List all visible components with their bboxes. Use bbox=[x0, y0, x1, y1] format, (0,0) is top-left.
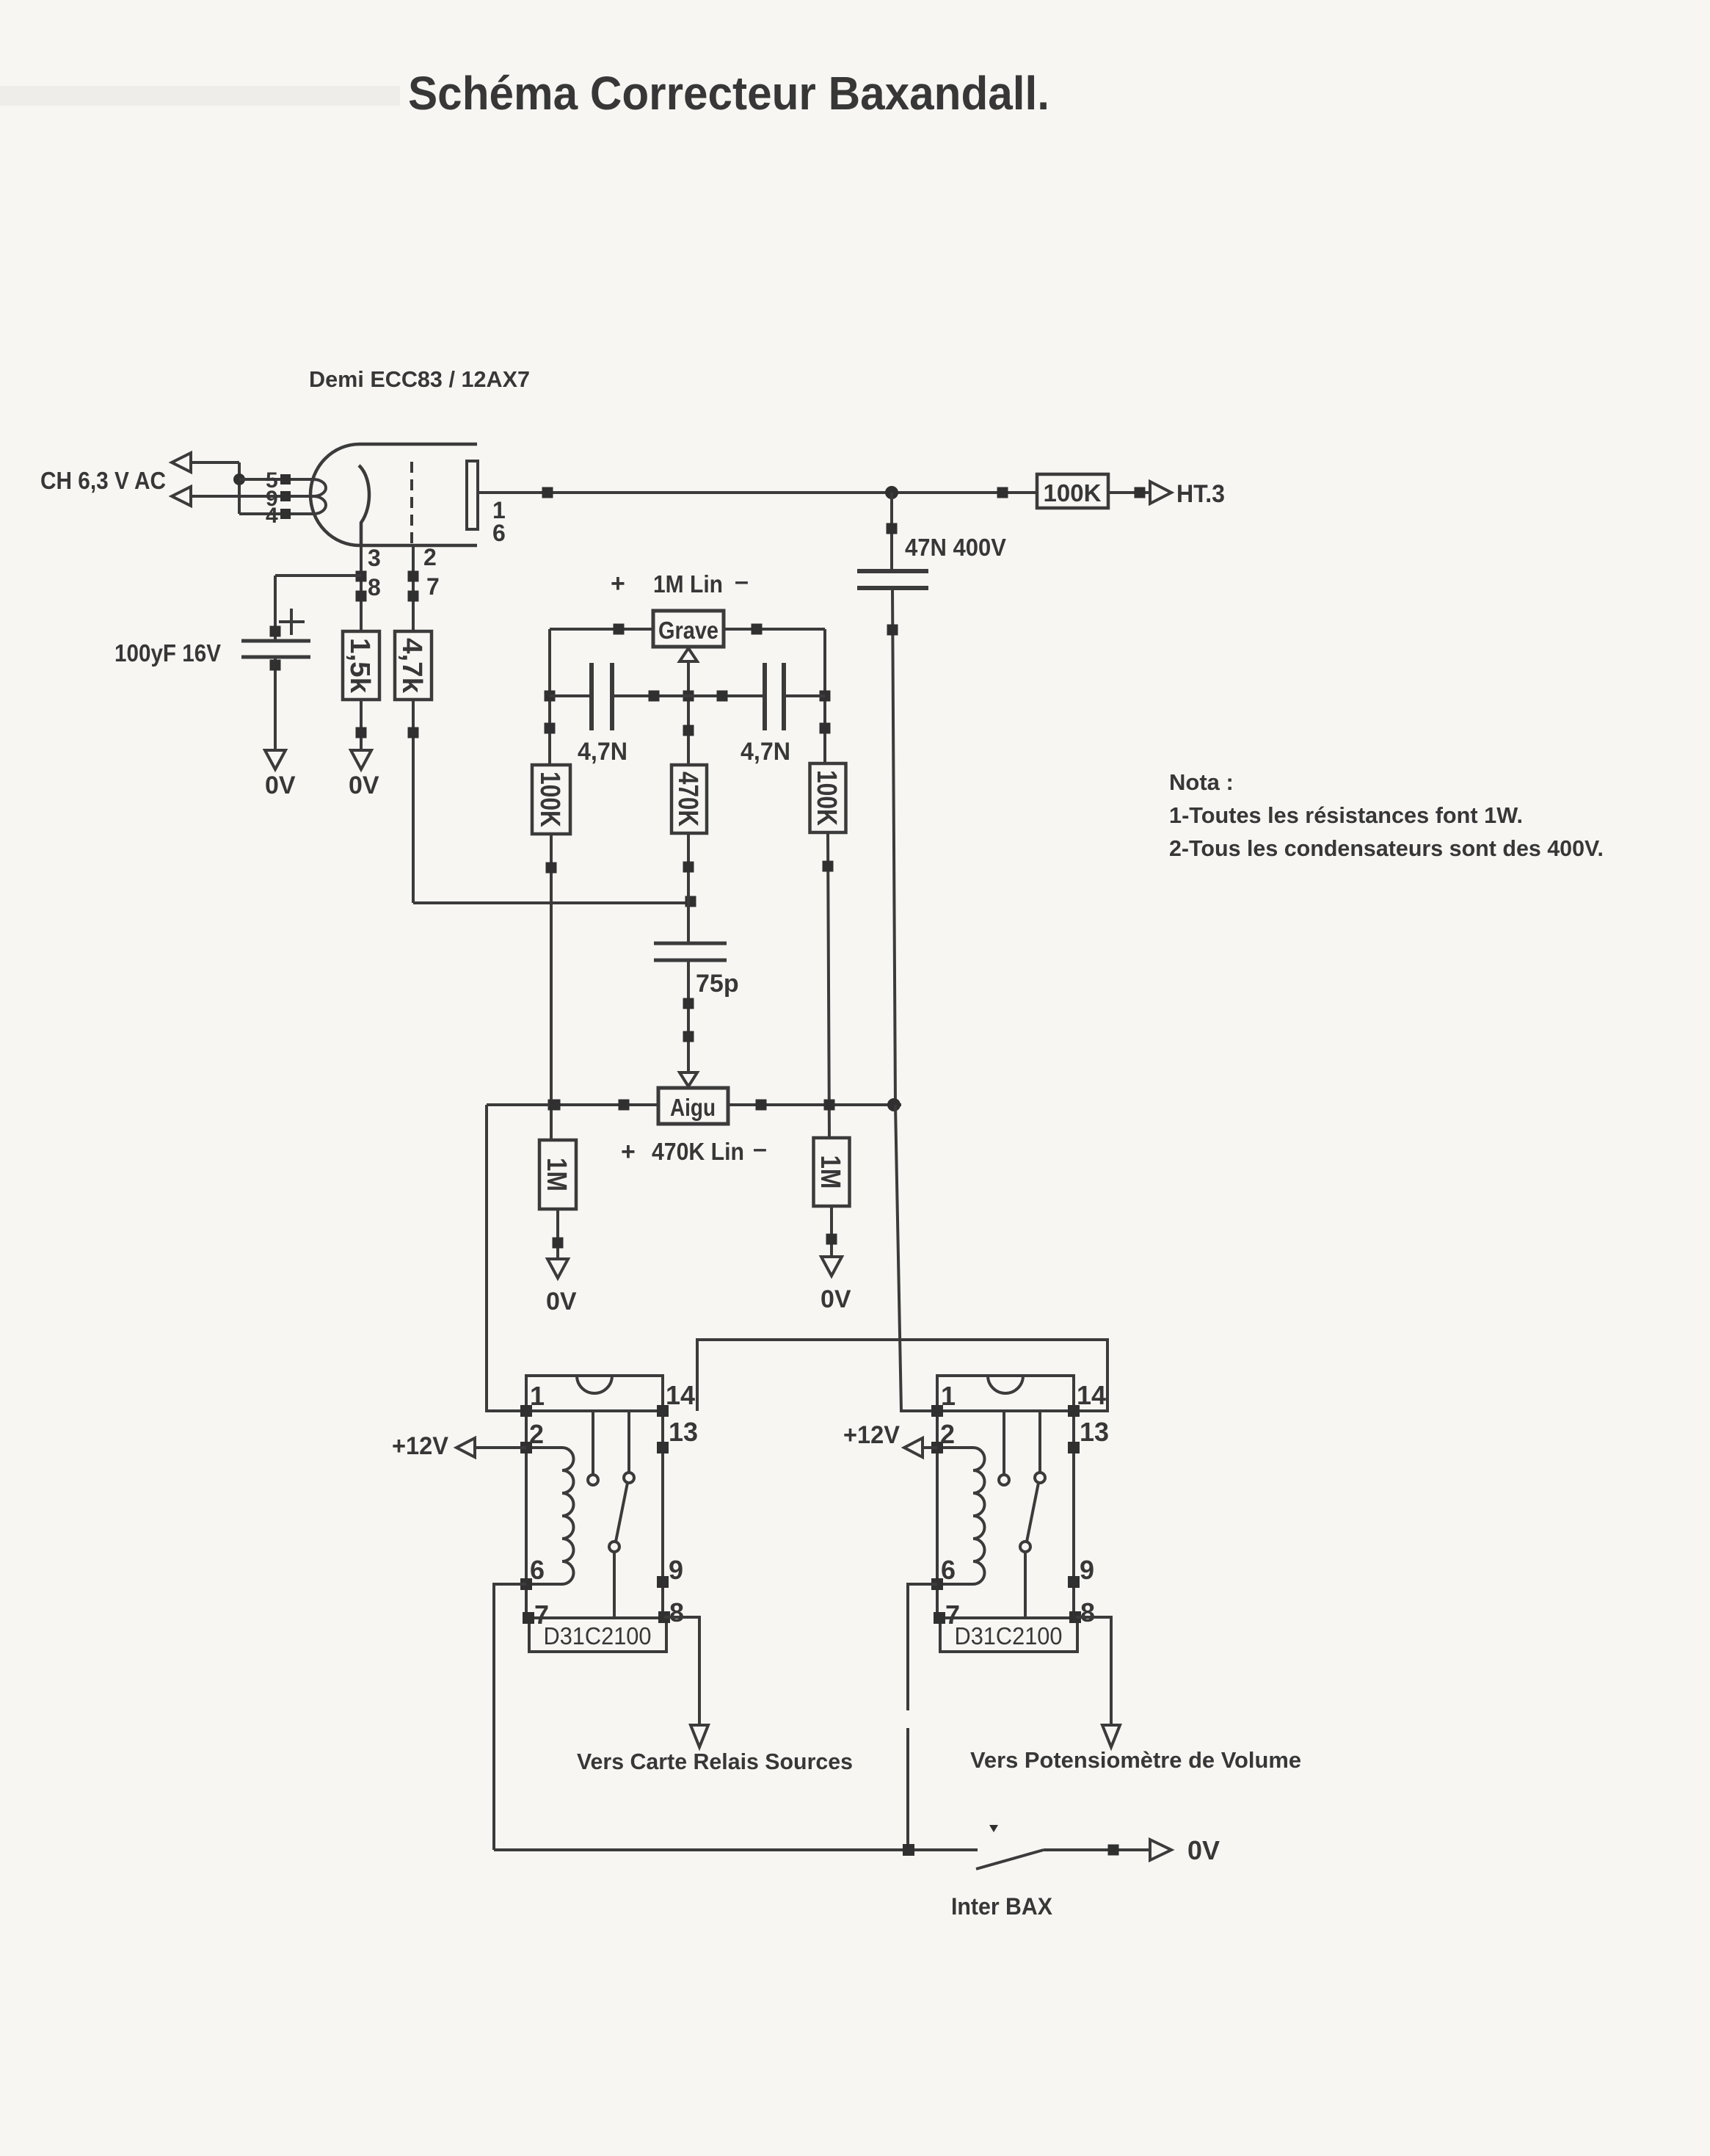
wire 100yF to ground bbox=[270, 657, 281, 750]
label +12V (K1) bbox=[392, 1432, 448, 1460]
label 0V (1M right) bbox=[821, 1285, 851, 1313]
svg-text:100K: 100K bbox=[1044, 479, 1102, 507]
label 4,7N right bbox=[741, 738, 790, 766]
wire 75p to Aigu wiper bbox=[683, 960, 694, 1072]
switch Inter BAX lever bbox=[976, 1850, 1044, 1869]
capacitor 75p bbox=[654, 943, 727, 960]
svg-text:1: 1 bbox=[941, 1381, 956, 1411]
svg-text:6: 6 bbox=[530, 1555, 545, 1585]
resistor 4,7k bbox=[395, 631, 432, 700]
tube label Demi ECC83 / 12AX7 bbox=[309, 366, 530, 392]
pin square 9 bbox=[280, 491, 291, 501]
relay K2 body bbox=[937, 1376, 1074, 1618]
relay K1 label box bbox=[529, 1618, 666, 1652]
pin label 8 bbox=[368, 574, 381, 600]
plus mark bbox=[279, 609, 305, 635]
port arrow 0V bbox=[1150, 1840, 1171, 1860]
relay K2 switch lever bbox=[1020, 1483, 1038, 1618]
resistor 100K (HT) bbox=[1037, 474, 1108, 508]
relay K2 pin square 2 bbox=[931, 1442, 943, 1453]
relay K2 contact stub left bbox=[999, 1411, 1009, 1485]
relay K1 internal top wire bbox=[526, 1409, 663, 1412]
artifact mark bbox=[989, 1825, 998, 1832]
svg-text:2: 2 bbox=[423, 544, 437, 570]
wire caps row mid bbox=[612, 691, 765, 702]
relay K2 pin square 1 bbox=[931, 1405, 943, 1417]
svg-text:3: 3 bbox=[368, 545, 381, 571]
wire Aigu right bbox=[728, 1100, 901, 1111]
svg-text:0V: 0V bbox=[265, 772, 296, 799]
tube V1 heater filament bbox=[290, 479, 326, 514]
relay K2 pin square 13 bbox=[1068, 1442, 1080, 1453]
tube V1 anode plate bbox=[467, 461, 478, 529]
wire Aigu left bbox=[487, 1100, 658, 1111]
relay K2 pin square 8 bbox=[1069, 1611, 1081, 1623]
relay K1 pin square 6 bbox=[520, 1578, 532, 1590]
svg-text:9: 9 bbox=[1080, 1555, 1094, 1585]
port arrow heater top bbox=[172, 453, 191, 472]
tube V1 envelope bbox=[310, 444, 477, 545]
pot Grave wiper arrow bbox=[680, 648, 697, 943]
relay K1 pin square 13 bbox=[657, 1442, 669, 1453]
ground 1M right bbox=[821, 1257, 842, 1276]
pot Aigu box bbox=[658, 1088, 728, 1124]
junction square anode bbox=[542, 487, 553, 498]
relay K2 pin label 8 bbox=[1080, 1597, 1095, 1627]
resistor 100K right bbox=[810, 763, 846, 832]
ground 1M left bbox=[547, 1259, 568, 1278]
relay K2 pin square 7 bbox=[934, 1612, 945, 1624]
resistor 100K left bbox=[532, 765, 570, 834]
relay K1 pin square 14 bbox=[657, 1405, 669, 1417]
relay K1 pin label 1 bbox=[530, 1381, 545, 1411]
svg-text:1-Toutes les résistances font: 1-Toutes les résistances font 1W. bbox=[1169, 802, 1523, 828]
relay K1 pin label 13 bbox=[669, 1417, 698, 1447]
label 100yF 16V bbox=[114, 639, 221, 667]
svg-text:Schéma Correcteur Baxandall.: Schéma Correcteur Baxandall. bbox=[408, 67, 1049, 120]
junction square before 100K bbox=[997, 487, 1008, 498]
note line 1 bbox=[1169, 802, 1523, 828]
svg-text:14: 14 bbox=[666, 1380, 695, 1410]
relay K1 pin square 2 bbox=[520, 1442, 532, 1453]
svg-text:0V: 0V bbox=[821, 1285, 851, 1313]
label 47N 400V bbox=[905, 534, 1006, 561]
svg-text:100K: 100K bbox=[811, 770, 842, 826]
wire node to relay2 pin1 bbox=[895, 1105, 937, 1411]
junction square wiper/4,7k bbox=[685, 896, 696, 907]
svg-text:6: 6 bbox=[492, 520, 506, 546]
relay K1 contact stub right bbox=[624, 1411, 634, 1483]
relay K1 pin label 6 bbox=[530, 1555, 545, 1585]
svg-text:4,7N: 4,7N bbox=[741, 738, 790, 766]
pin label 4 bbox=[266, 504, 278, 528]
svg-text:–: – bbox=[753, 1135, 767, 1163]
svg-text:7: 7 bbox=[426, 573, 440, 600]
relay K2 pin label 7 bbox=[945, 1600, 960, 1630]
capacitor 100yF 16V bbox=[241, 641, 310, 657]
ground 1,5k bbox=[351, 750, 371, 769]
wire 4,7k to wiper node bbox=[413, 901, 690, 904]
title bbox=[408, 67, 1049, 120]
relay K1 contact stub left bbox=[588, 1411, 598, 1485]
pin label 5 bbox=[266, 468, 278, 493]
pin square 5 bbox=[280, 474, 291, 484]
svg-text:1M Lin: 1M Lin bbox=[653, 570, 723, 598]
svg-text:100yF 16V: 100yF 16V bbox=[114, 639, 221, 667]
capacitor 47N 400V bbox=[857, 571, 928, 588]
relay K1 coil bbox=[526, 1448, 574, 1584]
svg-text:8: 8 bbox=[368, 574, 381, 600]
ground 100yF bbox=[265, 750, 285, 769]
pin label 1 bbox=[492, 497, 506, 523]
svg-text:470K: 470K bbox=[672, 772, 703, 827]
relay K1 pin label 8 bbox=[669, 1597, 684, 1627]
relay K1 body bbox=[526, 1376, 663, 1618]
wire 100K right down bbox=[823, 832, 835, 1138]
relay K2 pin label 9 bbox=[1080, 1555, 1094, 1585]
wire 100K to HT.3 bbox=[1108, 487, 1150, 498]
relay K1 switch lever bbox=[609, 1483, 627, 1618]
relay K2 pin square 9 bbox=[1068, 1576, 1080, 1588]
pin label 7 bbox=[426, 573, 440, 600]
svg-text:8: 8 bbox=[1080, 1597, 1095, 1627]
svg-text:0V: 0V bbox=[349, 772, 379, 799]
wire 1M left to ground bbox=[553, 1209, 564, 1259]
wire relay rail bbox=[697, 1340, 1107, 1411]
wire switch to 0V bbox=[1044, 1845, 1150, 1856]
junction square bottom rail bbox=[903, 1844, 914, 1856]
capacitor 4,7N left bbox=[592, 663, 612, 730]
label 0V (100yF) bbox=[265, 772, 296, 799]
wire caps row right bbox=[784, 694, 825, 697]
relay K2 contact stub right bbox=[1035, 1411, 1045, 1483]
label +12V (K2) bbox=[843, 1421, 900, 1449]
arrow to relais sources bbox=[691, 1725, 708, 1747]
label 75p bbox=[696, 970, 739, 998]
svg-text:Nota :: Nota : bbox=[1169, 769, 1234, 795]
svg-text:100K: 100K bbox=[534, 772, 565, 827]
relay K1 pin label 2 bbox=[529, 1419, 544, 1449]
junction heater bbox=[233, 473, 245, 485]
svg-text:Vers Potensiomètre de Volume: Vers Potensiomètre de Volume bbox=[970, 1747, 1301, 1773]
wire K1 pin8 out bbox=[664, 1617, 699, 1725]
svg-text:470K Lin: 470K Lin bbox=[652, 1138, 744, 1165]
svg-text:+: + bbox=[621, 1138, 636, 1166]
relay K1 pin square 7 bbox=[523, 1612, 534, 1624]
wire 47N to Aigu node bbox=[887, 588, 898, 1105]
scan smudge bbox=[0, 86, 400, 106]
relay K2 label box bbox=[940, 1618, 1077, 1652]
svg-text:1,5k: 1,5k bbox=[344, 638, 375, 694]
wire K2 pin6 to bottom rail bbox=[908, 1584, 937, 1850]
relay K1 pin square 1 bbox=[520, 1405, 532, 1417]
node Aigu/47N junction bbox=[887, 1098, 901, 1111]
svg-text:4: 4 bbox=[266, 504, 278, 528]
resistor 1M left bbox=[539, 1140, 576, 1209]
wire caps row left bbox=[550, 694, 592, 697]
svg-text:+12V: +12V bbox=[392, 1432, 448, 1460]
tube V1 grid (dashed) bbox=[410, 462, 413, 545]
capacitor 4,7N right bbox=[765, 663, 784, 730]
wire K1 pin6 to bottom rail bbox=[494, 1584, 526, 1850]
svg-text:13: 13 bbox=[669, 1417, 698, 1447]
pin square 4 bbox=[280, 509, 291, 519]
label Vers Potensiometre de Volume bbox=[970, 1747, 1301, 1773]
relay K2 pin label 2 bbox=[940, 1419, 955, 1449]
svg-text:D31C2100: D31C2100 bbox=[544, 1622, 652, 1649]
relay K2 pin label 13 bbox=[1080, 1417, 1109, 1447]
port arrow +12V (K1) bbox=[456, 1438, 475, 1457]
svg-text:14: 14 bbox=[1077, 1380, 1106, 1410]
wire heater pin5 bbox=[239, 478, 313, 481]
svg-text:2: 2 bbox=[529, 1419, 544, 1449]
relay K2 pin square 14 bbox=[1068, 1405, 1080, 1417]
svg-text:13: 13 bbox=[1080, 1417, 1109, 1447]
note heading bbox=[1169, 769, 1234, 795]
resistor 1,5k bbox=[343, 631, 379, 700]
wire 1M right to ground bbox=[826, 1206, 837, 1257]
label 0V (bottom) bbox=[1187, 1835, 1220, 1865]
svg-text:Grave: Grave bbox=[658, 617, 718, 644]
pot Grave box bbox=[653, 611, 724, 647]
svg-text:Demi ECC83 / 12AX7: Demi ECC83 / 12AX7 bbox=[309, 366, 530, 392]
relay K1 pin square 8 bbox=[658, 1611, 670, 1623]
relay K2 coil bbox=[937, 1448, 985, 1584]
pin label 9 bbox=[266, 487, 278, 511]
relay K1 pin label 14 bbox=[666, 1380, 695, 1410]
wire heater pin4 bbox=[239, 512, 313, 515]
svg-text:7: 7 bbox=[945, 1600, 960, 1630]
wire cathode bypass tap bbox=[270, 576, 362, 641]
svg-text:75p: 75p bbox=[696, 970, 739, 998]
svg-text:1M: 1M bbox=[815, 1155, 845, 1189]
note line 2 bbox=[1169, 835, 1604, 861]
relay K2 internal top wire bbox=[937, 1409, 1074, 1412]
svg-text:0V: 0V bbox=[546, 1288, 577, 1315]
svg-text:D31C2100: D31C2100 bbox=[955, 1622, 1063, 1649]
pin label 6 bbox=[492, 520, 506, 546]
svg-text:8: 8 bbox=[669, 1597, 684, 1627]
relay K1 pin square 9 bbox=[657, 1576, 669, 1588]
pot Aigu wiper arrow bbox=[680, 1072, 697, 1086]
label 0V (1M left) bbox=[546, 1288, 577, 1315]
svg-text:2: 2 bbox=[940, 1419, 955, 1449]
wire HT to 47N bbox=[887, 493, 898, 571]
label HT.3 bbox=[1176, 480, 1225, 508]
svg-text:7: 7 bbox=[534, 1600, 549, 1630]
relay K1 pin label 7 bbox=[534, 1600, 549, 1630]
svg-text:0V: 0V bbox=[1187, 1835, 1220, 1865]
resistor 1M right bbox=[814, 1138, 850, 1206]
svg-text:1M: 1M bbox=[541, 1158, 572, 1191]
wire Grave right down bbox=[820, 629, 831, 765]
arrow to potentiometre bbox=[1102, 1725, 1120, 1747]
svg-text:2-Tous les condensateurs sont: 2-Tous les condensateurs sont des 400V. bbox=[1169, 835, 1604, 861]
port arrow heater bottom bbox=[172, 487, 191, 506]
wire +12V to K2 pin2 bbox=[923, 1446, 937, 1449]
svg-text:+: + bbox=[611, 570, 625, 598]
wire anode to HT bbox=[478, 491, 1037, 494]
wire 4,7k down bbox=[408, 700, 419, 903]
port arrow +12V (K2) bbox=[904, 1438, 923, 1457]
wire Grave right bbox=[724, 624, 825, 635]
node 47N tap bbox=[885, 486, 898, 499]
wire K2 pin8 out bbox=[1076, 1617, 1111, 1725]
wire cathode to resistor 1,5k bbox=[356, 545, 367, 631]
svg-text:Vers Carte Relais Sources: Vers Carte Relais Sources bbox=[577, 1749, 853, 1774]
wire 1,5k to ground bbox=[356, 700, 367, 750]
label 0V (1,5k) bbox=[349, 772, 379, 799]
svg-text:–: – bbox=[735, 567, 749, 595]
svg-text:HT.3: HT.3 bbox=[1176, 480, 1225, 508]
pin label 2 bbox=[423, 544, 437, 570]
label 4,7N left bbox=[578, 738, 627, 766]
relay K2 pin label 14 bbox=[1077, 1380, 1106, 1410]
label Vers Carte Relais Sources bbox=[577, 1749, 853, 1774]
wire Aigu to relay1 pin1 bbox=[487, 1105, 526, 1411]
svg-text:47N 400V: 47N 400V bbox=[905, 534, 1006, 561]
wire Grave left bbox=[550, 624, 653, 635]
port arrow HT.3 bbox=[1150, 482, 1171, 504]
svg-text:9: 9 bbox=[669, 1555, 683, 1585]
svg-text:Aigu: Aigu bbox=[670, 1094, 716, 1121]
svg-text:CH 6,3 V AC: CH 6,3 V AC bbox=[40, 467, 166, 494]
resistor 470K bbox=[672, 765, 707, 833]
relay K1 pin label 9 bbox=[669, 1555, 683, 1585]
label 1M Lin bbox=[611, 567, 749, 598]
svg-text:4,7N: 4,7N bbox=[578, 738, 627, 766]
wire bottom rail bbox=[494, 1848, 978, 1851]
svg-text:+12V: +12V bbox=[843, 1421, 900, 1449]
relay K2 pin label 1 bbox=[941, 1381, 956, 1411]
label CH 6,3 V AC bbox=[40, 467, 166, 494]
label 470K Lin bbox=[621, 1135, 767, 1166]
wire Grave left down bbox=[545, 629, 556, 765]
wire +12V to K1 pin2 bbox=[475, 1446, 526, 1449]
relay K2 pin square 6 bbox=[931, 1578, 943, 1590]
wire heater pin9 bbox=[191, 495, 313, 498]
svg-text:4,7k: 4,7k bbox=[396, 638, 427, 694]
svg-text:6: 6 bbox=[941, 1555, 956, 1585]
wire 100K left down bbox=[546, 834, 559, 1140]
relay K2 pin label 6 bbox=[941, 1555, 956, 1585]
wire heater top bbox=[191, 462, 239, 514]
tube V1 cathode bbox=[359, 465, 369, 545]
label Inter BAX bbox=[951, 1893, 1053, 1920]
wire grid to resistor 4,7k bbox=[408, 545, 419, 631]
svg-text:1: 1 bbox=[530, 1381, 545, 1411]
pin label 3 bbox=[368, 545, 381, 571]
svg-text:Inter BAX: Inter BAX bbox=[951, 1893, 1053, 1920]
